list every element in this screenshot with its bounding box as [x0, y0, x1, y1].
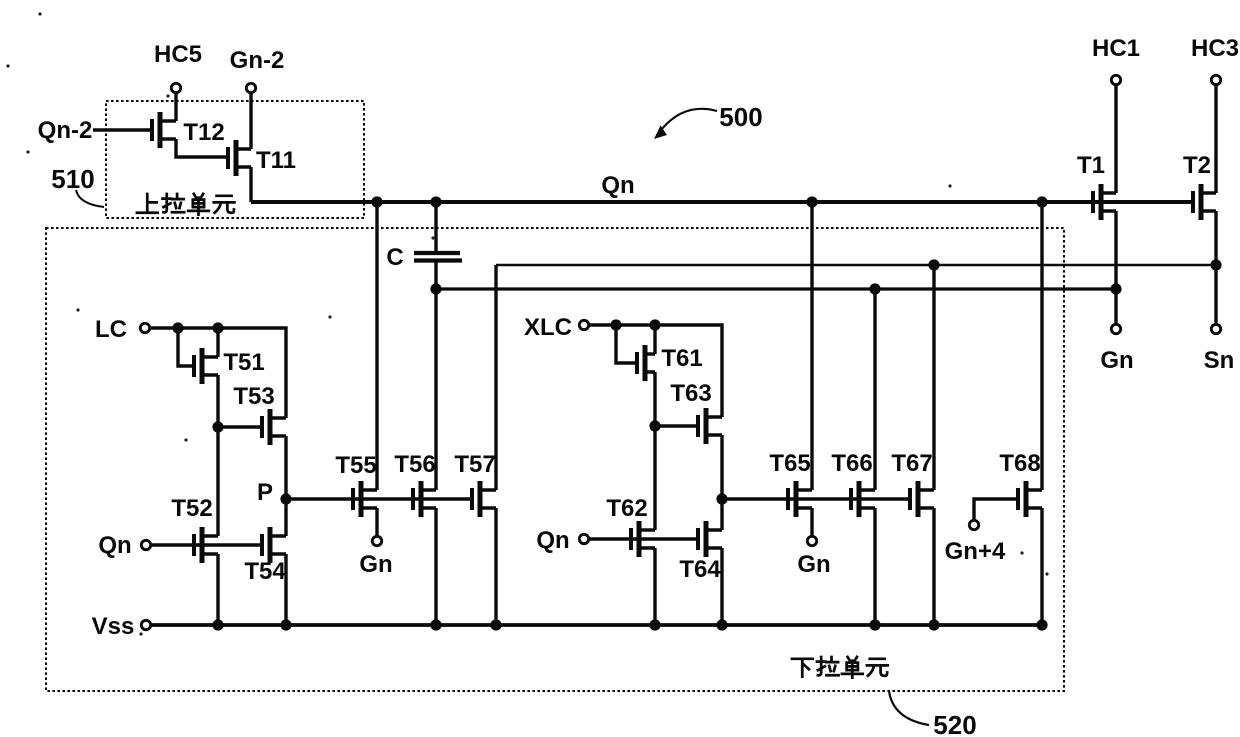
transistor T68: [1018, 481, 1042, 517]
wire LC lead to T53 drain: [150, 328, 286, 418]
wire T68 source to Vss: [1040, 508, 1043, 625]
svg-text:Gn+4: Gn+4: [945, 538, 1006, 565]
junction Vss / T64: [716, 619, 727, 630]
junction Vss / T54: [280, 619, 291, 630]
svg-text:T52: T52: [171, 495, 212, 522]
svg-text:Gn: Gn: [1100, 347, 1133, 374]
wire T64 drain to node Q: [720, 499, 723, 530]
svg-text:Qn: Qn: [98, 532, 131, 559]
svg-text:Gn: Gn: [797, 551, 830, 578]
svg-text:T12: T12: [183, 119, 224, 146]
terminal Gn below T55: [372, 536, 381, 545]
terminal Qn middle: [579, 534, 588, 543]
wire T2 source to Sn output: [1214, 211, 1217, 324]
junction Qn / T65 drain: [806, 196, 817, 207]
svg-text:T65: T65: [769, 450, 810, 477]
wire T67 drain to Sn net: [932, 265, 935, 490]
transistor T11: [228, 140, 251, 176]
svg-text:C: C: [386, 244, 403, 271]
transistor T52: [194, 527, 218, 563]
wire T12 source to T11 gate: [176, 139, 228, 157]
wire Qn-2 input to T12 gate: [93, 128, 152, 131]
transistor T62: [631, 521, 655, 557]
junction XLC / T61 gate: [610, 319, 621, 330]
wire node P gate line to T55 T56 T57: [286, 497, 472, 500]
leader line 510: [76, 190, 104, 207]
transistor T55: [353, 481, 377, 517]
terminal XLC: [579, 320, 588, 329]
junction LC / T51 drain: [212, 322, 223, 333]
svg-text:Sn: Sn: [1204, 347, 1235, 374]
pull-up unit dashed box (510): [106, 101, 364, 218]
wire T1 source to Gn output: [1114, 211, 1117, 324]
junction Qn / capacitor C: [430, 196, 441, 207]
wire T11 source to node Qn: [249, 167, 252, 202]
svg-text:T67: T67: [891, 450, 932, 477]
wire Vss horizontal line: [151, 623, 1042, 627]
junction Sn net / T2 source: [1210, 259, 1221, 270]
svg-text:T53: T53: [233, 383, 274, 410]
wire T65 drain to Qn net: [810, 202, 813, 490]
svg-text:520: 520: [933, 710, 976, 737]
wire Gn-2 terminal to T11 drain: [249, 93, 252, 149]
node P junction: [280, 493, 291, 504]
svg-text:T56: T56: [394, 451, 435, 478]
junction Vss / T67: [928, 619, 939, 630]
svg-text:T61: T61: [661, 345, 702, 372]
wire node A T51 source to T52 drain: [216, 375, 219, 536]
wire T65 source to Gn terminal: [810, 508, 813, 536]
junction XLC / T61 drain: [649, 319, 660, 330]
transistor T2: [1193, 184, 1216, 220]
transistor T53: [262, 409, 286, 445]
wire node B T61 source to T62 drain: [653, 372, 656, 530]
wire T61 gate lead: [616, 325, 637, 363]
wire Qn left lead to T52 T54 gates: [151, 543, 262, 546]
terminal LC: [140, 323, 149, 332]
wire Gn net horizontal line: [436, 287, 1116, 290]
terminal Gn-2: [246, 83, 255, 92]
wire T68 drain to Qn net: [1040, 202, 1043, 490]
label pull-down unit (Chinese): [792, 657, 888, 678]
wire Qn to capacitor C top plate: [434, 202, 437, 253]
wire T54 drain to node P: [284, 499, 287, 536]
svg-text:T55: T55: [335, 452, 376, 479]
capacitor C: [414, 253, 462, 261]
junction Gn net / T1 source: [1110, 283, 1121, 294]
transistor T67: [910, 481, 934, 517]
leader line 520: [889, 691, 929, 725]
transistor T54: [262, 527, 286, 563]
wire T53 gate lead: [218, 425, 262, 428]
svg-text:HC1: HC1: [1092, 35, 1140, 62]
svg-text:T64: T64: [679, 556, 721, 583]
svg-text:LC: LC: [95, 316, 127, 343]
junction Gn net / capacitor: [430, 283, 441, 294]
node Q junction: [716, 493, 727, 504]
transistor T12: [152, 112, 176, 148]
svg-text:T51: T51: [223, 349, 264, 376]
svg-text:T11: T11: [256, 147, 296, 174]
wire T66 source to Vss: [873, 508, 876, 625]
wire T67 source to Vss: [932, 508, 935, 625]
svg-text:T66: T66: [831, 450, 872, 477]
svg-text:HC5: HC5: [154, 41, 202, 68]
wire node Q gate line to T65 T66 T67: [722, 497, 910, 500]
terminal HC3: [1211, 75, 1220, 84]
wire T54 source to Vss: [284, 554, 287, 625]
junction LC / T51 gate: [172, 322, 183, 333]
svg-text:XLC: XLC: [524, 314, 572, 341]
wire HC3 to T2 drain: [1214, 85, 1217, 193]
svg-text:Gn-2: Gn-2: [230, 47, 285, 74]
node A junction: [212, 421, 223, 432]
svg-text:Vss: Vss: [92, 613, 135, 640]
terminal Vss: [141, 620, 150, 629]
svg-text:T1: T1: [1077, 152, 1105, 179]
wire HC1 to T1 drain: [1114, 85, 1117, 193]
terminal Sn output: [1211, 324, 1220, 333]
wire Qn middle lead to T62 T64 gates: [589, 537, 698, 540]
transistor T65: [788, 481, 812, 517]
transistor T64: [698, 521, 722, 557]
svg-text:T2: T2: [1183, 152, 1211, 179]
svg-text:T62: T62: [606, 495, 647, 522]
svg-text:T54: T54: [244, 558, 286, 585]
junction Vss / T66: [869, 619, 880, 630]
wire Qn net horizontal line: [251, 200, 1193, 204]
svg-text:510: 510: [51, 164, 94, 194]
wire T51 gate lead: [178, 328, 194, 366]
junction Sn net / T67 drain: [928, 259, 939, 270]
wire T56 source to Vss: [434, 508, 437, 625]
svg-text:P: P: [257, 479, 273, 506]
pull-down unit dashed box (520): [46, 228, 1064, 691]
terminal Gn output: [1111, 324, 1120, 333]
junction Qn / T55 drain: [371, 196, 382, 207]
transistor T51: [194, 348, 218, 384]
wire T66 drain to Gn net: [873, 289, 876, 490]
wire T55 drain to Qn net: [375, 202, 378, 490]
junction Vss / T68: [1036, 619, 1047, 630]
junction Vss / T52: [212, 619, 223, 630]
terminal Gn below T65: [807, 536, 816, 545]
leader arrow 500: [654, 109, 717, 139]
junction Vss / T62: [649, 619, 660, 630]
node B junction: [649, 420, 660, 431]
junction Qn / T68 drain: [1036, 196, 1047, 207]
junction Vss / T57: [490, 619, 501, 630]
svg-text:Qn: Qn: [536, 527, 569, 554]
terminal Gn+4: [969, 520, 978, 529]
wire T53 source to node P: [284, 436, 287, 499]
terminal HC1: [1111, 75, 1120, 84]
wire T12 drain to HC5 terminal: [174, 93, 177, 121]
terminal HC5: [171, 83, 180, 92]
wire T63 source to node Q: [720, 435, 723, 499]
wire Gn+4 lead to T68 gate: [974, 499, 1018, 520]
svg-text:HC3: HC3: [1191, 35, 1239, 62]
transistor T66: [851, 481, 875, 517]
wire T62 source to Vss: [653, 548, 656, 625]
wire T51 drain to LC: [216, 328, 219, 357]
svg-text:Qn: Qn: [601, 172, 634, 199]
wire T56 drain to Gn net: [434, 289, 437, 490]
junction Gn net / T66 drain: [869, 283, 880, 294]
wire T57 drain to Sn net: [494, 265, 497, 490]
wire T55 source to Gn terminal: [375, 508, 378, 536]
wire T64 source to Vss: [720, 548, 723, 625]
wire T63 gate lead: [655, 424, 698, 427]
transistor T61: [637, 345, 655, 381]
junction Vss / T56: [430, 619, 441, 630]
terminal Qn left: [141, 540, 150, 549]
wire capacitor C bottom plate to Gn net: [434, 262, 437, 289]
svg-text:T63: T63: [670, 380, 711, 407]
wire T57 source to Vss: [494, 508, 497, 625]
wire T61 drain to XLC: [653, 325, 656, 354]
transistor T56: [413, 481, 436, 517]
wire T52 source to Vss: [216, 554, 219, 625]
transistor T1: [1093, 184, 1116, 220]
svg-text:Gn: Gn: [359, 551, 392, 578]
svg-text:Qn-2: Qn-2: [38, 117, 93, 144]
svg-text:500: 500: [719, 102, 762, 132]
svg-text:T68: T68: [999, 450, 1040, 477]
transistor T63: [698, 408, 722, 444]
transistor T57: [472, 481, 496, 517]
wire Sn net horizontal line: [496, 264, 1216, 267]
svg-text:T57: T57: [454, 451, 495, 478]
label pull-up unit (Chinese): [137, 194, 234, 215]
scan specks: [6, 12, 1048, 635]
wire XLC lead to T63 drain: [589, 325, 722, 417]
